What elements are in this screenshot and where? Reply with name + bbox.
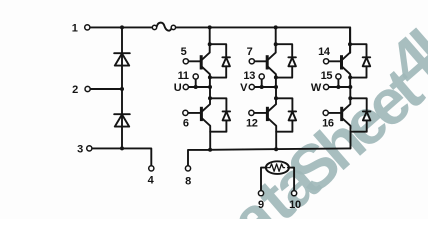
svg-text:15: 15 [321,70,333,82]
svg-text:16: 16 [322,118,334,130]
svg-text:11: 11 [178,70,189,82]
svg-text:13: 13 [243,70,255,82]
svg-text:2: 2 [72,84,78,96]
svg-text:W: W [311,82,322,94]
svg-text:9: 9 [258,199,264,211]
svg-text:V: V [240,82,248,94]
svg-text:1: 1 [72,22,78,34]
svg-text:8: 8 [185,175,191,187]
svg-text:6: 6 [183,118,189,130]
svg-text:U: U [174,82,182,94]
svg-text:7: 7 [247,46,253,58]
svg-text:3: 3 [77,143,83,155]
svg-text:14: 14 [318,46,331,58]
svg-text:10: 10 [289,199,301,211]
svg-text:5: 5 [181,46,187,58]
svg-text:12: 12 [246,118,258,130]
